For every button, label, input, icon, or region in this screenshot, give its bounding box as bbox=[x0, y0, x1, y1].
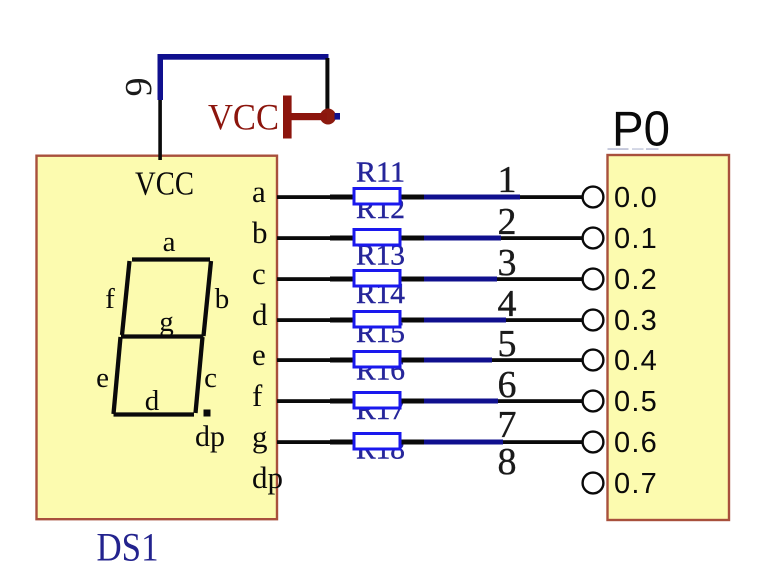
terminal 0.1 bbox=[583, 228, 604, 249]
svg-text:6: 6 bbox=[498, 364, 517, 406]
resistor R13 body bbox=[354, 271, 400, 287]
segment dp dot bbox=[204, 410, 211, 417]
resistor R16 body bbox=[354, 393, 400, 409]
terminal 0.6 bbox=[583, 432, 604, 453]
resistor label R18 bbox=[356, 435, 405, 466]
wire number 6 bbox=[498, 364, 517, 406]
power net label VCC bbox=[208, 98, 279, 139]
svg-text:f: f bbox=[105, 283, 115, 315]
svg-text:b: b bbox=[252, 215, 268, 250]
pin label dp bbox=[252, 460, 283, 495]
port pin label 0.2 bbox=[614, 264, 658, 296]
segment label a bbox=[163, 226, 176, 258]
port pin label 0.4 bbox=[614, 345, 658, 377]
wire number 2 bbox=[498, 201, 517, 243]
segment b bbox=[204, 261, 212, 336]
svg-text:e: e bbox=[96, 362, 109, 394]
wire number 1 bbox=[498, 159, 517, 201]
junction dot bbox=[320, 109, 336, 125]
wire number 3 bbox=[498, 242, 517, 284]
segment f bbox=[122, 261, 130, 335]
terminal 0.5 bbox=[583, 391, 604, 412]
svg-text:0.1: 0.1 bbox=[614, 223, 658, 255]
segment g bbox=[121, 334, 204, 338]
svg-text:g: g bbox=[252, 419, 268, 454]
svg-text:b: b bbox=[215, 283, 230, 315]
svg-text:0.6: 0.6 bbox=[614, 427, 658, 459]
segment label d bbox=[145, 385, 160, 417]
seven segment glyph: segment a bbox=[132, 257, 210, 261]
port pin label 0.5 bbox=[614, 386, 658, 418]
wire black vertical drop to VCC junction bbox=[325, 58, 329, 113]
segment d bbox=[114, 412, 195, 416]
pin number 9 (rotated) bbox=[118, 78, 160, 97]
port pin label 0.3 bbox=[614, 305, 658, 337]
segment label b bbox=[215, 283, 230, 315]
svg-text:DS1: DS1 bbox=[97, 525, 159, 570]
pin label g bbox=[252, 419, 268, 454]
wire VCC vertical black into DS1 pin 9 bbox=[158, 100, 162, 160]
pin label b bbox=[252, 215, 268, 250]
display component DS1 body bbox=[37, 156, 278, 520]
wire row f bbox=[277, 399, 584, 404]
pin label VCC inside DS1 bbox=[135, 166, 194, 203]
resistor label R15 bbox=[356, 318, 405, 349]
pin label f bbox=[252, 378, 263, 413]
svg-text:d: d bbox=[252, 297, 268, 332]
resistor label R17 bbox=[356, 395, 405, 426]
svg-text:5: 5 bbox=[498, 323, 517, 365]
svg-text:0.7: 0.7 bbox=[614, 468, 658, 500]
wire number 4 bbox=[498, 283, 517, 325]
svg-text:0.2: 0.2 bbox=[614, 264, 658, 296]
resistor R14 body bbox=[354, 312, 400, 328]
terminal 0.0 bbox=[583, 187, 604, 208]
port pin label 0.1 bbox=[614, 223, 658, 255]
svg-text:f: f bbox=[252, 378, 263, 413]
port pin label 0.6 bbox=[614, 427, 658, 459]
resistor R12 body bbox=[354, 230, 400, 246]
wire row d bbox=[277, 318, 584, 323]
power port VCC cross bar bbox=[283, 96, 292, 139]
wire VCC top horizontal blue bbox=[158, 54, 329, 60]
svg-text:R11: R11 bbox=[356, 158, 405, 189]
port pin label 0.7 bbox=[614, 468, 658, 500]
svg-text:0.3: 0.3 bbox=[614, 305, 658, 337]
wire row a bbox=[277, 195, 584, 200]
pin label d bbox=[252, 297, 268, 332]
resistor label R16 bbox=[356, 356, 405, 387]
segment label e bbox=[96, 362, 109, 394]
wire number 7 bbox=[498, 404, 517, 446]
segment label f bbox=[105, 283, 115, 315]
segment c bbox=[196, 337, 203, 413]
resistor label R14 bbox=[356, 279, 405, 310]
svg-text:c: c bbox=[252, 256, 266, 291]
erased label remnant under P0 bbox=[608, 148, 659, 150]
wire number 8 bbox=[498, 441, 517, 483]
segment label g bbox=[159, 306, 174, 338]
segment label dp bbox=[195, 420, 225, 453]
terminal 0.3 bbox=[583, 310, 604, 331]
svg-text:3: 3 bbox=[498, 242, 517, 284]
svg-text:7: 7 bbox=[498, 404, 517, 446]
terminal 0.7 bbox=[583, 473, 604, 494]
wire row e bbox=[277, 358, 584, 363]
svg-text:4: 4 bbox=[498, 283, 517, 325]
segment label c bbox=[204, 362, 217, 394]
svg-text:c: c bbox=[204, 362, 217, 394]
svg-text:e: e bbox=[252, 337, 266, 372]
svg-text:0.5: 0.5 bbox=[614, 386, 658, 418]
svg-text:a: a bbox=[252, 174, 266, 209]
wire row c bbox=[277, 277, 584, 282]
svg-text:9: 9 bbox=[118, 78, 160, 97]
wire number 5 bbox=[498, 323, 517, 365]
designator DS1 bbox=[97, 525, 159, 570]
segment e bbox=[114, 337, 121, 414]
svg-text:0.0: 0.0 bbox=[614, 182, 658, 214]
resistor R11 body bbox=[354, 189, 400, 205]
resistor R15 body bbox=[354, 352, 400, 368]
wire VCC vertical blue segment bbox=[158, 54, 164, 100]
svg-text:VCC: VCC bbox=[208, 98, 279, 139]
svg-text:g: g bbox=[159, 306, 174, 338]
wire row g bbox=[277, 440, 584, 445]
svg-text:dp: dp bbox=[252, 460, 283, 495]
svg-text:dp: dp bbox=[195, 420, 225, 453]
svg-text:0.4: 0.4 bbox=[614, 345, 658, 377]
pin label a bbox=[252, 174, 266, 209]
port pin label 0.0 bbox=[614, 182, 658, 214]
svg-text:d: d bbox=[145, 385, 160, 417]
svg-text:2: 2 bbox=[498, 201, 517, 243]
port designator P0 bbox=[612, 103, 670, 157]
port component P0 body bbox=[608, 155, 730, 520]
pin label c bbox=[252, 256, 266, 291]
svg-text:a: a bbox=[163, 226, 176, 258]
resistor R17 body bbox=[354, 434, 400, 450]
resistor label R12 bbox=[356, 194, 405, 225]
wire row b bbox=[277, 236, 584, 241]
power port VCC stub bar bbox=[290, 113, 327, 120]
resistor label R13 bbox=[356, 241, 405, 272]
pin label e bbox=[252, 337, 266, 372]
svg-text:1: 1 bbox=[498, 159, 517, 201]
resistor label R11 bbox=[356, 158, 405, 189]
terminal 0.4 bbox=[583, 350, 604, 371]
svg-text:VCC: VCC bbox=[135, 166, 194, 203]
svg-text:8: 8 bbox=[498, 441, 517, 483]
navy wire stub right of dot bbox=[335, 113, 341, 120]
terminal 0.2 bbox=[583, 269, 604, 290]
